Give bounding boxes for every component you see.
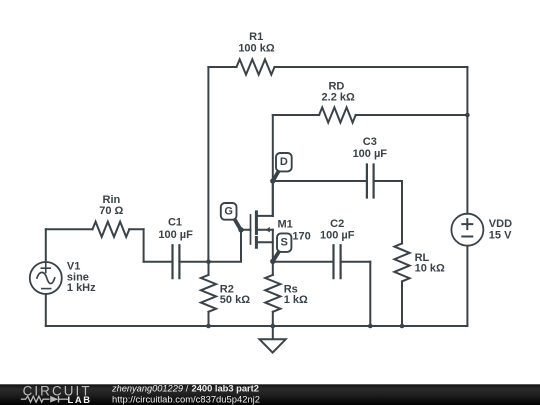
svg-text:70 Ω: 70 Ω — [99, 205, 123, 217]
svg-text:1 kΩ: 1 kΩ — [284, 294, 308, 306]
capacitor C1 — [173, 245, 180, 278]
wire right vertical (top row to VDD) — [466, 67, 468, 214]
transistor M1 — [251, 212, 273, 262]
V1 circle — [30, 262, 62, 294]
footer logo squiggle — [21, 396, 68, 403]
resistor Rs — [265, 275, 280, 312]
resistor R1 — [237, 59, 275, 74]
wire S row to C2 — [273, 261, 371, 263]
svg-text:C1: C1 — [168, 217, 182, 229]
svg-text:LAB: LAB — [68, 394, 92, 405]
wire RL branch vertical — [401, 181, 403, 326]
wire top row — [208, 66, 467, 68]
capacitor C2 — [334, 245, 341, 278]
node D flag — [270, 153, 292, 184]
voltage source VDD — [451, 214, 483, 246]
svg-text:100 µF: 100 µF — [320, 230, 355, 242]
wire V1 leads — [45, 229, 47, 326]
V1 minus sign — [42, 288, 51, 290]
node RL bottom — [400, 324, 405, 329]
ground — [260, 326, 286, 353]
svg-text:zhenyang001229: zhenyang001229 — [111, 384, 183, 394]
node RD/VDD junction — [465, 113, 470, 118]
wire VDD bottom lead — [466, 246, 468, 326]
wire RD row — [273, 114, 468, 116]
V1 plus sign — [41, 264, 50, 273]
svg-text:10 kΩ: 10 kΩ — [415, 262, 445, 274]
resistor R2 — [201, 275, 216, 312]
svg-text:2400 lab3 part2: 2400 lab3 part2 — [192, 384, 260, 394]
M1 bulk arrow — [266, 227, 270, 233]
svg-text:170: 170 — [292, 231, 310, 243]
capacitor C3 — [367, 165, 374, 198]
node gate junction — [206, 259, 211, 264]
wire Rs branch — [272, 262, 274, 326]
svg-text:/: / — [186, 384, 189, 394]
resistor RD — [319, 107, 356, 122]
svg-text:VDD: VDD — [489, 218, 512, 230]
wire C1 drop — [143, 229, 145, 261]
svg-text:S: S — [281, 237, 288, 249]
svg-text:C3: C3 — [363, 136, 377, 148]
svg-text:100 kΩ: 100 kΩ — [238, 43, 275, 55]
node Rs bottom / ground — [271, 324, 276, 329]
VDD plus sign — [462, 219, 472, 229]
resistor Rin — [93, 222, 130, 237]
M1 channel segments — [255, 212, 258, 247]
svg-text:R1: R1 — [249, 31, 263, 43]
svg-text:G: G — [224, 205, 233, 217]
node S flag — [270, 233, 291, 264]
node R2 bottom — [206, 324, 211, 329]
node G flag — [221, 203, 244, 233]
VDD circle — [451, 214, 483, 246]
wire Rin row — [46, 228, 144, 230]
svg-text:C2: C2 — [330, 218, 344, 230]
M1 gate bar — [250, 215, 252, 244]
svg-text:15 V: 15 V — [489, 229, 512, 241]
svg-text:D: D — [280, 156, 288, 168]
wire bottom row — [46, 325, 468, 327]
wire drain vertical — [272, 115, 274, 216]
wire C2 drop — [369, 262, 371, 326]
wire left vertical (R1 branch down to gate node) — [207, 67, 209, 262]
wire gate loop — [209, 230, 251, 262]
wire M1 drain to D node — [272, 181, 274, 216]
M1 drain/bulk/source leads — [258, 216, 273, 242]
svg-text:M1: M1 — [278, 218, 293, 230]
VDD minus sign — [462, 236, 472, 238]
node C2 bottom — [368, 324, 373, 329]
resistor RL — [394, 243, 409, 281]
svg-text:2.2 kΩ: 2.2 kΩ — [322, 92, 355, 104]
svg-text:50 kΩ: 50 kΩ — [220, 294, 250, 306]
voltage source V1 — [30, 262, 62, 294]
svg-text:http://circuitlab.com/c837du5p: http://circuitlab.com/c837du5p42nj2 — [112, 395, 260, 405]
V1 sine wave — [37, 272, 55, 283]
wire C3 row — [273, 180, 402, 182]
svg-text:100 µF: 100 µF — [158, 229, 193, 241]
svg-text:1 kHz: 1 kHz — [67, 282, 96, 294]
wire R2 branch — [208, 262, 210, 326]
wire C1 row — [144, 261, 209, 263]
svg-text:100 µF: 100 µF — [353, 148, 388, 160]
